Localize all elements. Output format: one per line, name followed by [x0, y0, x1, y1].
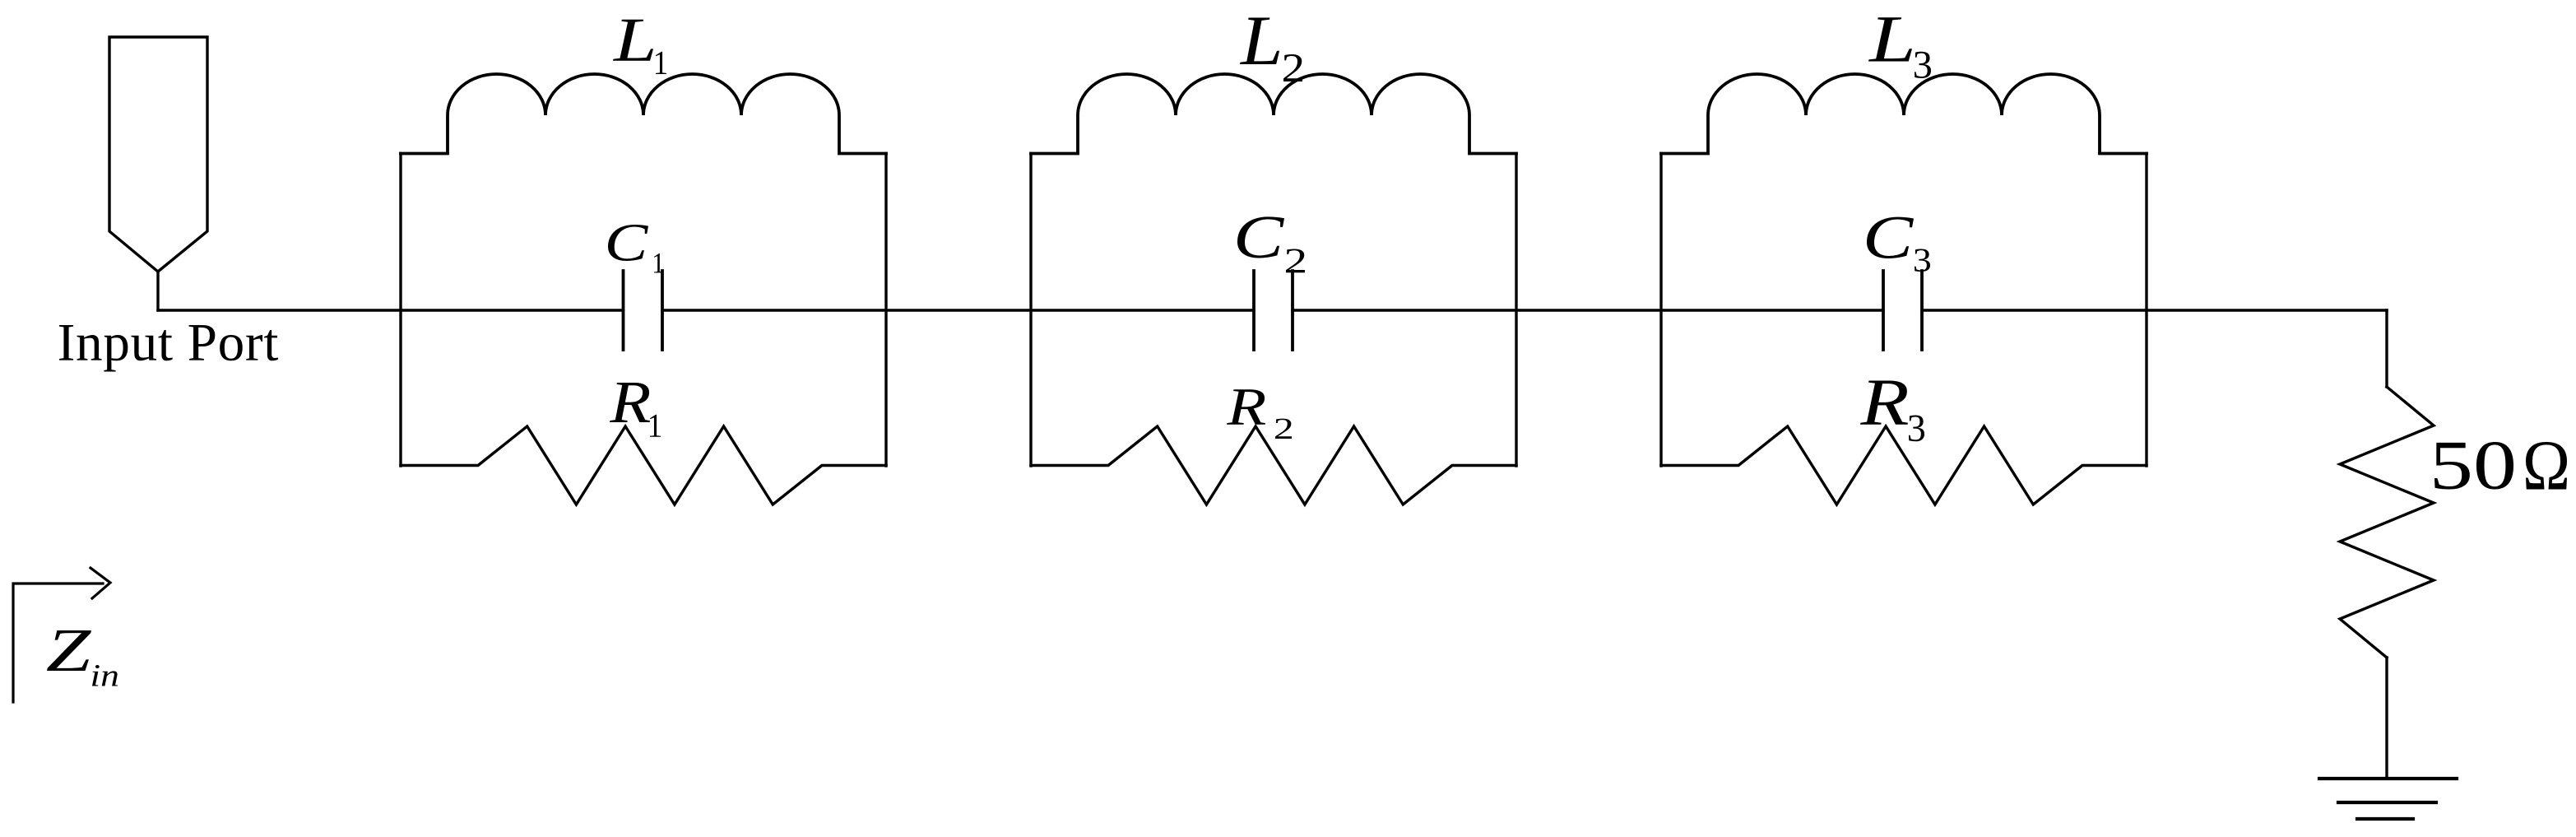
label L3	[1868, 17, 1912, 61]
inductor L2	[1031, 74, 1516, 154]
resistor R1	[401, 426, 886, 505]
inductor L1	[401, 74, 886, 154]
ground	[2319, 779, 2457, 819]
wire: section 1 right vertical	[884, 154, 887, 467]
label C1	[608, 225, 648, 261]
wire: section 2 right vertical	[1515, 154, 1517, 467]
resistor 50ohm load	[2340, 387, 2434, 658]
wire: section 1 left vertical	[399, 154, 401, 467]
label L2	[1240, 18, 1279, 64]
label C2	[1237, 216, 1284, 258]
label Input Port	[59, 325, 278, 372]
label L1	[613, 20, 653, 61]
capacitor C1	[624, 271, 663, 350]
resistor R3	[1661, 426, 2147, 505]
wire: load bottom lead	[2385, 658, 2388, 778]
capacitor C2	[1254, 271, 1293, 350]
label Zin	[47, 630, 91, 671]
wire: section 3 left vertical	[1659, 154, 1662, 467]
label R2	[1227, 389, 1265, 424]
wire: section 2 left vertical	[1029, 154, 1032, 467]
wire: main line C3 to load	[1922, 309, 2387, 311]
wire: main line C2 to C3	[1293, 309, 1883, 311]
input port connector	[109, 37, 207, 272]
node Zin: input impedance arrow	[13, 568, 110, 702]
label 50 ohm	[2434, 442, 2513, 490]
wire: main line C1 to C2	[662, 309, 1254, 311]
wire: load top lead	[2385, 310, 2388, 387]
capacitor C3	[1883, 271, 1922, 350]
label R1	[610, 383, 650, 422]
wire: section 3 right vertical	[2145, 154, 2147, 467]
label R3	[1860, 380, 1908, 424]
label C3	[1867, 217, 1914, 258]
resistor R2	[1031, 426, 1516, 505]
wire: main line input to C1	[158, 309, 624, 311]
inductor L3	[1661, 74, 2147, 154]
wire: input port stem	[156, 272, 159, 310]
